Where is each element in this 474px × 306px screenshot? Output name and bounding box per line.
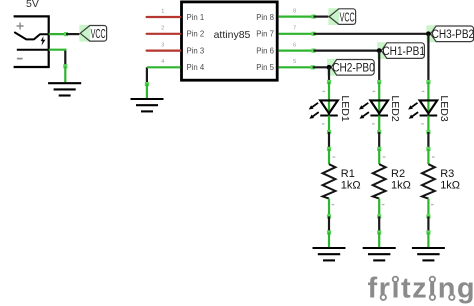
node CH3-PB2 junction: [426, 31, 431, 36]
svg-text:1kΩ: 1kΩ: [341, 179, 361, 191]
node CH2-PB0 junction: [327, 65, 332, 70]
net label CH1-PB1: [377, 42, 425, 59]
svg-text:Pin 2: Pin 2: [187, 30, 205, 39]
wire battery- down: [49, 50, 68, 82]
svg-text:Pin 5: Pin 5: [256, 63, 274, 72]
svg-text:3: 3: [161, 43, 164, 49]
ground (pin4): [131, 99, 164, 111]
svg-text:6: 6: [293, 43, 296, 49]
svg-text:LED2: LED2: [389, 95, 401, 121]
svg-text:LED3: LED3: [438, 95, 450, 121]
svg-text:2: 2: [161, 26, 164, 32]
ground (LED2 column): [363, 248, 396, 260]
net label CH3-PB2: [426, 25, 474, 42]
svg-text:attiny85: attiny85: [214, 29, 251, 41]
net label CH2-PB0: [327, 59, 375, 76]
svg-text:7: 7: [293, 26, 296, 32]
wire LED2 to R2: [377, 132, 381, 151]
LED LED2: [359, 82, 401, 134]
wire CH3 node down to LED3: [426, 34, 430, 84]
net label VCC (left): [79, 25, 106, 42]
battery BT1 5V: [14, 0, 49, 67]
svg-text:CH2-PB0: CH2-PB0: [332, 62, 375, 75]
wire LED3 to R3: [426, 132, 430, 151]
wire pin4 (green) to ground: [145, 59, 181, 98]
wire pin8 (green stub): [279, 9, 330, 19]
svg-text:Pin 7: Pin 7: [256, 30, 274, 39]
net label VCC (right): [328, 8, 355, 25]
wire pin5 (green stub): [279, 59, 329, 69]
wire LED1 to R1: [327, 132, 331, 151]
svg-text:R2: R2: [391, 168, 405, 180]
svg-text:Pin 6: Pin 6: [256, 46, 274, 55]
fritzing logo: [368, 273, 474, 305]
svg-text:1kΩ: 1kΩ: [391, 179, 411, 191]
svg-text:1kΩ: 1kΩ: [440, 179, 460, 191]
svg-text:VCC: VCC: [340, 11, 355, 25]
svg-text:5: 5: [293, 59, 296, 65]
svg-text:Pin 3: Pin 3: [187, 46, 205, 55]
LED LED1: [309, 82, 351, 134]
resistor R2 1k: [373, 149, 411, 219]
svg-text:Pin 4: Pin 4: [187, 63, 205, 72]
wire pin3 (red): [147, 43, 181, 51]
wire CH2 node down to LED1: [327, 67, 331, 84]
ground (battery): [48, 83, 81, 95]
LED LED3: [408, 82, 450, 134]
op-amp body: IC U1 attiny85: [182, 2, 278, 80]
wire pin1 (red): [147, 9, 181, 17]
svg-text:VCC: VCC: [91, 28, 106, 42]
svg-text:LED1: LED1: [339, 95, 351, 121]
ground (LED3 column): [412, 248, 445, 260]
wire R3 to ground: [426, 216, 430, 247]
ground (LED1 column): [313, 248, 346, 260]
wire pin2 (red): [147, 26, 181, 34]
wire battery+ to VCC: [49, 32, 80, 36]
wire CH1 node down to LED2: [377, 51, 381, 85]
wire pin6 (green stub): [279, 43, 380, 53]
svg-text:Pin 1: Pin 1: [187, 13, 205, 22]
svg-text:4: 4: [161, 59, 164, 65]
resistor R1 1k: [323, 149, 361, 219]
wire R2 to ground: [377, 216, 381, 247]
node CH1-PB1 junction: [377, 48, 382, 53]
tiny terminal marks: [322, 91, 435, 205]
resistor R3 1k: [422, 149, 460, 219]
svg-text:R3: R3: [440, 168, 454, 180]
svg-text:5V: 5V: [26, 0, 39, 10]
wire R1 to ground: [327, 216, 331, 247]
svg-text:Pin 8: Pin 8: [256, 13, 274, 22]
svg-text:8: 8: [293, 9, 296, 15]
svg-text:CH1-PB1: CH1-PB1: [382, 45, 425, 58]
wire pin7 (green stub): [279, 26, 429, 36]
svg-text:R1: R1: [341, 168, 355, 180]
svg-text:CH3-PB2: CH3-PB2: [432, 28, 474, 41]
svg-text:1: 1: [161, 9, 164, 15]
